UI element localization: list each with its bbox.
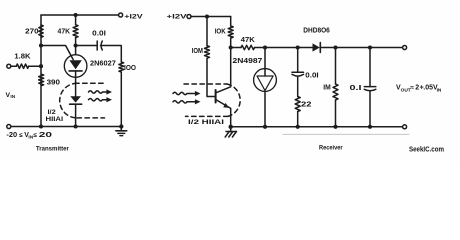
svg-text:IOM: IOM [192,48,203,55]
wire bottom receiver [231,126,403,128]
wire top receiver [191,16,231,18]
svg-text:≤: ≤ [33,132,37,139]
node input junction [39,64,43,68]
svg-text:Receiver: Receiver [319,145,343,152]
svg-text:HIIAI: HIIAI [46,117,64,123]
svg-text:0.I: 0.I [350,85,362,92]
wire mid receiver [265,47,313,49]
svg-text:390: 390 [47,80,61,87]
ground receiver chassis [230,127,232,132]
wire gate lead [41,46,73,60]
svg-text:SeekIC.com: SeekIC.com [409,144,444,153]
resistor 390 [39,74,44,85]
svg-text:22: 22 [301,101,312,108]
svg-text:20: 20 [39,132,52,139]
ground transmitter [120,127,122,131]
svg-text:270: 270 [25,29,39,36]
emitter with arrow [217,100,231,127]
photon arrows receiver [173,92,196,94]
terminal Vin input [7,64,11,68]
phototransistor receiver: collector [217,48,231,93]
node anode junction [74,43,78,47]
resistor 100 [119,62,124,72]
svg-text:IN: IN [10,94,15,100]
resistor 1M [335,48,337,85]
diode DHD806 [313,43,320,51]
resistor 1.8K [11,65,17,67]
svg-text:0.0I: 0.0I [305,72,318,79]
svg-text:-20: -20 [6,132,17,139]
resistor 47K receiver [231,47,241,49]
svg-text:≤: ≤ [19,132,23,139]
svg-text:1.8K: 1.8K [14,53,30,60]
svg-text:47K: 47K [58,28,71,35]
svg-text:2N6027: 2N6027 [90,61,116,68]
svg-text:Transmitter: Transmitter [36,145,69,152]
wire left branch vertical [40,15,42,127]
photon arrows transmitter [89,91,108,93]
node gate junction [39,43,43,47]
base bar [215,90,217,103]
wire capacitor lead [76,46,122,63]
resistor 47K [74,13,78,17]
wire output top [320,47,402,49]
wire LED anode [75,77,77,96]
svg-text:I/2: I/2 [48,110,57,116]
svg-text:I/2 HIIAI: I/2 HIIAI [188,120,225,126]
svg-text:IN: IN [437,87,442,93]
svg-text:DHD8O6: DHD8O6 [303,28,330,35]
capacitor 0.1 [369,48,371,87]
transistor 2N4987 SUS [264,48,266,69]
svg-text:+I2V: +I2V [124,14,143,21]
svg-text:+I2V: +I2V [167,13,188,20]
svg-text:2N4987: 2N4987 [233,58,263,65]
op 2N6027 PUT circle [64,55,87,78]
svg-text:47K: 47K [241,37,255,44]
node collector junction [229,45,233,49]
optocoupler dashed D outline transmitter [77,82,103,84]
svg-text:0.0I: 0.0I [92,31,106,38]
LED D1 optocoupler [70,96,81,102]
resistor 10K [230,17,232,27]
resistor 10M [206,17,208,46]
wire bottom transmitter [11,126,122,128]
resistor 270 [39,25,43,37]
resistor 22 [295,97,300,112]
svg-text:IOK: IOK [215,29,226,36]
svg-text:≈: ≈ [410,85,414,92]
svg-text:IOO: IOO [124,65,137,72]
scan artifact line [283,133,409,135]
transistor 2N6027 triangle [69,60,81,69]
capacitor 0.01 transmitter [96,41,98,50]
capacitor 0.01 receiver [297,48,299,73]
node SUS anode junction [263,45,267,49]
terminal +12V transmitter [119,13,123,17]
svg-text:IM: IM [323,84,331,91]
dashed outline receiver optocoupler [184,83,227,85]
wire top rail transmitter [41,14,119,16]
